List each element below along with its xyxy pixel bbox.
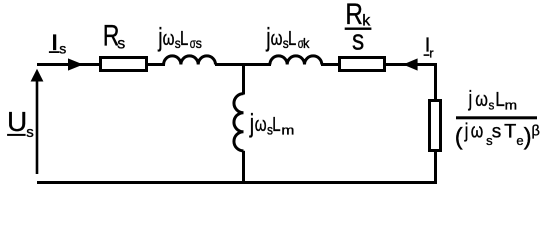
label U_s	[7, 106, 34, 141]
svg-text:s: s	[196, 36, 203, 52]
svg-text:s: s	[489, 98, 495, 113]
resistor R_k/s box	[340, 58, 385, 71]
wire Rs to Lss	[146, 63, 165, 66]
svg-text:(: (	[455, 123, 463, 150]
voltage arrow U_s line	[36, 81, 39, 174]
inductor L_m magnetizing coil	[234, 94, 244, 151]
svg-text:): )	[524, 123, 532, 150]
svg-text:T: T	[504, 121, 516, 142]
svg-text:U: U	[7, 106, 27, 137]
svg-text:ω: ω	[471, 120, 483, 142]
svg-text:L: L	[180, 27, 188, 50]
svg-text:m: m	[505, 98, 517, 113]
wire Lsk to Rk	[321, 63, 340, 66]
svg-text:r: r	[429, 45, 434, 60]
svg-text:s: s	[352, 23, 364, 55]
resistor R_s box	[101, 58, 147, 71]
svg-text:ω: ω	[255, 113, 267, 136]
svg-text:ω: ω	[163, 27, 175, 50]
svg-text:j: j	[468, 87, 473, 112]
label R_k over s fraction	[345, 0, 372, 56]
inductor L_sigma_k coil	[270, 56, 322, 65]
svg-text:k: k	[303, 36, 310, 52]
resistor rotor impedance box	[430, 101, 441, 151]
current arrow I_r head	[403, 58, 418, 70]
svg-text:s: s	[59, 41, 66, 57]
svg-text:ω: ω	[271, 27, 283, 50]
svg-text:m: m	[281, 123, 294, 137]
wire node to Lm coil	[242, 63, 245, 95]
label R_s	[103, 19, 126, 53]
svg-text:L: L	[288, 27, 296, 50]
label j omega_s L_m magnetizing	[249, 108, 294, 138]
svg-text:L: L	[495, 88, 505, 111]
svg-text:I: I	[51, 30, 59, 55]
svg-text:s: s	[492, 121, 502, 142]
current arrow I_s head	[68, 58, 83, 70]
svg-text:s: s	[117, 36, 125, 53]
label rotor impedance fraction denominator (j omega_s s T_e)^beta	[455, 120, 540, 151]
svg-text:β: β	[532, 124, 540, 140]
svg-text:s: s	[26, 124, 34, 141]
svg-text:ω: ω	[475, 88, 488, 110]
label I_r	[424, 34, 435, 60]
wire Rk to top-right corner	[385, 65, 436, 101]
fraction bar rotor impedance	[456, 116, 537, 119]
label I_s	[49, 30, 66, 57]
svg-text:e: e	[516, 133, 523, 148]
inductor L_sigma_s coil	[164, 56, 216, 65]
svg-text:j: j	[265, 22, 270, 51]
wire bottom rail	[37, 181, 437, 184]
svg-text:j: j	[464, 120, 468, 142]
label rotor impedance fraction numerator j omega_s L_m	[468, 87, 517, 113]
svg-text:L: L	[272, 113, 280, 136]
wire right box to bottom rail	[434, 150, 437, 184]
voltage arrow U_s head	[31, 69, 44, 82]
wire Lss to Lsk through node	[215, 63, 271, 66]
wire top-left input segment	[37, 63, 101, 66]
label j omega_s L_sigma_s	[157, 22, 202, 52]
wire Lm coil to bottom rail	[242, 151, 245, 184]
svg-text:j: j	[249, 108, 254, 137]
label j omega_s L_sigma_k	[265, 22, 309, 52]
